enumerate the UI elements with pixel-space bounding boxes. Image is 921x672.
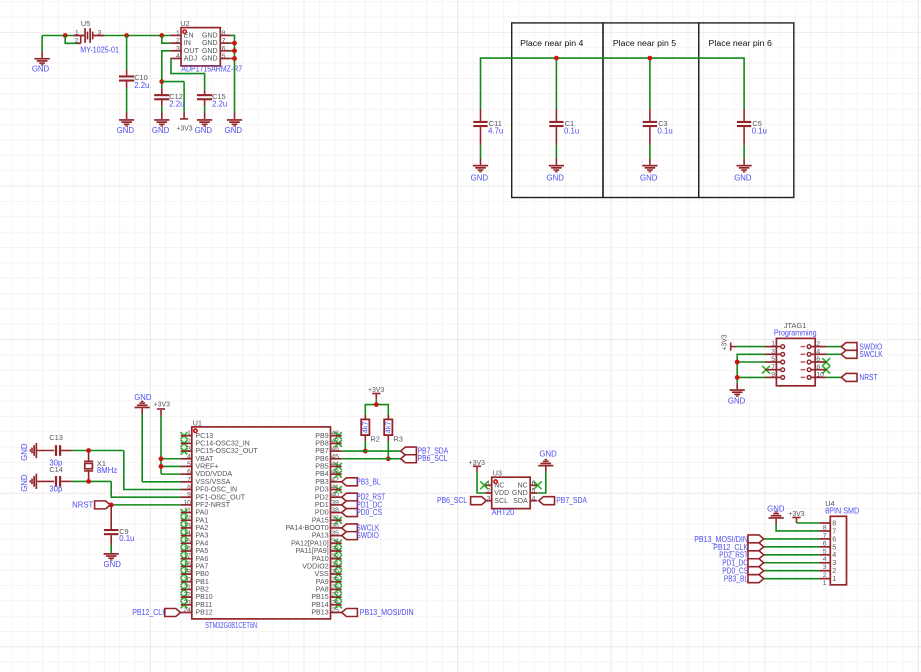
- svg-text:31: 31: [331, 561, 339, 568]
- net flag PD0_CS (U4): [722, 567, 763, 576]
- net flag PB3_BL: [342, 477, 381, 486]
- svg-text:NRST: NRST: [72, 500, 93, 509]
- capacitor C13: [49, 433, 72, 467]
- junction VBAT: [159, 456, 164, 461]
- net flag NRST: [72, 500, 110, 509]
- svg-text:1: 1: [823, 580, 827, 587]
- power +3V3 (regulator output): [176, 82, 192, 133]
- ground GND (C14, rotated): [20, 474, 54, 492]
- svg-text:PB13: PB13: [311, 609, 328, 617]
- svg-text:R3: R3: [393, 435, 402, 444]
- svg-text:2.2u: 2.2u: [169, 100, 184, 109]
- wire JTAG ground bus: [737, 354, 765, 389]
- wire U5 pin2 jog: [65, 36, 76, 44]
- net flag PB3_BL (U4): [724, 575, 764, 584]
- svg-text:1: 1: [75, 30, 79, 37]
- capacitor C10: [119, 36, 149, 120]
- wire C14 to PF1-OSC_OUT: [72, 481, 181, 497]
- ground GND under C11: [471, 165, 489, 183]
- svg-text:4k7: 4k7: [361, 422, 370, 434]
- svg-text:GND: GND: [32, 65, 50, 74]
- svg-text:41: 41: [331, 484, 339, 491]
- svg-text:24: 24: [183, 607, 191, 614]
- svg-text:0.1u: 0.1u: [119, 534, 134, 543]
- junction U2 IN tap: [159, 33, 164, 38]
- svg-text:40: 40: [331, 492, 339, 499]
- svg-text:GND: GND: [20, 443, 29, 461]
- svg-text:GND: GND: [202, 55, 218, 63]
- svg-text:2: 2: [832, 567, 836, 575]
- no-connect X JTAG pin8: [822, 366, 830, 374]
- svg-text:SWDIO: SWDIO: [356, 531, 379, 540]
- svg-text:6: 6: [222, 45, 226, 52]
- wire JTAG pin4 to SWCLK: [827, 353, 842, 355]
- svg-text:+3V3: +3V3: [721, 334, 728, 350]
- wire U2 GND pins to ground rail: [231, 35, 235, 119]
- svg-text:PB7_SDA: PB7_SDA: [556, 496, 587, 505]
- svg-text:22: 22: [183, 592, 191, 599]
- power +3V3 (JTAG, rotated): [721, 334, 736, 351]
- svg-text:Place near pin 4: Place near pin 4: [520, 39, 584, 48]
- svg-text:8: 8: [222, 30, 226, 37]
- svg-text:8: 8: [816, 364, 820, 371]
- frame Place near pin 5: [603, 23, 699, 198]
- svg-text:Programming: Programming: [774, 328, 817, 337]
- wire JTAG pin2 to SWDIO: [827, 346, 842, 348]
- svg-text:GND: GND: [104, 560, 122, 569]
- power +3V3 (MCU): [154, 402, 170, 474]
- svg-text:U3: U3: [493, 469, 502, 478]
- svg-text:12: 12: [183, 515, 191, 522]
- svg-text:PB6_SCL: PB6_SCL: [437, 496, 468, 505]
- wire C13 to PF0-OSC_IN: [72, 451, 181, 490]
- junction X1 bottom: [86, 479, 91, 484]
- svg-text:3: 3: [176, 45, 180, 52]
- net flag PB6_SCL (AHT20): [437, 496, 486, 505]
- svg-text:7: 7: [832, 527, 836, 535]
- svg-text:5: 5: [771, 356, 775, 363]
- sensor U3 AHT20: [485, 469, 537, 517]
- junction C1 tap: [554, 56, 559, 61]
- svg-text:44: 44: [331, 461, 339, 468]
- svg-text:MY-1025-01: MY-1025-01: [80, 46, 119, 55]
- microcontroller U1 STM32G0B1CET6N: [181, 418, 342, 630]
- wire JTAG pin10 to NRST: [827, 376, 842, 378]
- net flag SWDIO: [342, 531, 379, 540]
- svg-text:8: 8: [187, 484, 191, 491]
- no-connect X marks U1 left side: [181, 432, 188, 608]
- ground GND under C10: [117, 119, 135, 135]
- svg-text:4: 4: [532, 495, 536, 502]
- junction JTAG pin5: [735, 360, 740, 365]
- svg-text:4k7: 4k7: [384, 422, 393, 434]
- wire U4 pin4 net PD2_RST: [764, 554, 820, 556]
- svg-text:Place near pin 6: Place near pin 6: [709, 39, 772, 48]
- svg-text:4: 4: [176, 53, 180, 60]
- capacitor C9: [104, 505, 134, 553]
- svg-text:GND: GND: [640, 174, 658, 183]
- svg-text:47: 47: [331, 438, 339, 445]
- svg-text:18: 18: [183, 561, 191, 568]
- svg-text:8: 8: [832, 519, 836, 527]
- svg-text:14: 14: [183, 530, 191, 537]
- svg-text:C13: C13: [49, 433, 63, 442]
- svg-text:10: 10: [183, 499, 191, 506]
- wire PB7 to flag: [342, 450, 401, 452]
- svg-text:4: 4: [187, 453, 191, 460]
- junction R3/PB6: [386, 456, 391, 461]
- svg-text:29: 29: [331, 576, 339, 583]
- svg-text:30p: 30p: [49, 484, 63, 493]
- net flag PB12_CLK (U4): [713, 543, 763, 552]
- net flag PB6_SCL (MCU): [401, 454, 448, 463]
- svg-text:PB12_CLK: PB12_CLK: [132, 608, 167, 617]
- svg-text:6: 6: [816, 356, 820, 363]
- svg-text:0.1u: 0.1u: [564, 126, 579, 135]
- svg-text:9: 9: [771, 372, 775, 379]
- svg-text:6: 6: [532, 480, 536, 487]
- svg-text:U2: U2: [180, 19, 189, 28]
- svg-text:4: 4: [832, 551, 836, 559]
- svg-text:+3V3: +3V3: [176, 125, 192, 132]
- svg-text:5: 5: [187, 461, 191, 468]
- net flag PD2_RST (U4): [719, 551, 764, 560]
- svg-text:7: 7: [222, 38, 226, 45]
- capacitor C3: [643, 109, 673, 165]
- ground GND (MCU top): [134, 393, 152, 482]
- svg-text:28: 28: [331, 584, 339, 591]
- svg-text:35: 35: [331, 530, 339, 537]
- svg-text:39: 39: [331, 499, 339, 506]
- svg-text:19: 19: [183, 569, 191, 576]
- svg-text:PD0_CS: PD0_CS: [356, 508, 382, 517]
- svg-text:48: 48: [331, 430, 339, 437]
- net flag SWCLK: [342, 523, 380, 532]
- svg-text:3: 3: [98, 29, 102, 36]
- svg-text:30: 30: [331, 569, 339, 576]
- svg-text:38: 38: [331, 507, 339, 514]
- svg-text:42: 42: [331, 476, 339, 483]
- junction C3 tap: [648, 56, 653, 61]
- svg-text:13: 13: [183, 522, 191, 529]
- svg-text:GND: GND: [728, 396, 746, 405]
- capacitor C15: [197, 90, 227, 119]
- junction VREF+: [159, 464, 164, 469]
- wire +3V3 to R2/R3: [365, 405, 388, 420]
- svg-text:R2: R2: [370, 435, 379, 444]
- svg-text:5: 5: [532, 488, 536, 495]
- wire +3V3 to VDD/VDDA: [161, 473, 181, 475]
- svg-text:U5: U5: [81, 19, 90, 28]
- ground GND under C15: [195, 119, 213, 135]
- wire U2 OUT net: [162, 51, 171, 88]
- wire U4 pin2 net PD0_CS: [764, 570, 820, 572]
- ground GND (AHT20): [537, 450, 557, 494]
- svg-text:C14: C14: [49, 465, 63, 474]
- net flag PB7_SDA (AHT20): [539, 496, 588, 505]
- svg-text:10: 10: [816, 372, 824, 379]
- svg-text:8MHz: 8MHz: [97, 466, 117, 475]
- svg-text:PB3_BL: PB3_BL: [724, 575, 749, 584]
- svg-text:5: 5: [832, 543, 836, 551]
- junction C10 tap: [124, 33, 129, 38]
- svg-text:2: 2: [187, 438, 191, 445]
- svg-text:ADJ: ADJ: [184, 55, 198, 63]
- svg-text:6: 6: [832, 535, 836, 543]
- svg-text:GND: GND: [539, 450, 557, 459]
- svg-text:1: 1: [487, 480, 491, 487]
- wire U4 pin5 net PB12_CLK: [764, 546, 820, 548]
- net flag PB13_MOSI/DIN (MCU): [342, 608, 414, 617]
- svg-text:2: 2: [176, 38, 180, 45]
- svg-text:AHT20: AHT20: [492, 508, 515, 517]
- svg-text:GND: GND: [471, 174, 489, 183]
- svg-text:0.1u: 0.1u: [658, 126, 673, 135]
- wire +3V3 to VREF+: [161, 465, 181, 467]
- net flag PB7_SDA (MCU): [401, 447, 449, 456]
- power +3V3 (AHT20): [469, 460, 485, 493]
- power +3V3 (U4): [788, 511, 819, 523]
- junction U2 pin7: [232, 41, 237, 46]
- connector JTAG1 Programming header: [765, 321, 827, 386]
- svg-text:2.2u: 2.2u: [212, 100, 227, 109]
- svg-text:16: 16: [183, 546, 191, 553]
- capacitor C14: [49, 465, 72, 493]
- svg-text:GND: GND: [20, 474, 29, 492]
- svg-text:GND: GND: [134, 393, 152, 402]
- no-connect X U3 pin6: [534, 481, 542, 489]
- frame Place near pin 4: [512, 23, 603, 198]
- no-connect X U3 pin1: [480, 481, 488, 489]
- wire to U2 IN pin: [162, 36, 171, 44]
- svg-text:26: 26: [331, 599, 339, 606]
- ground GND (U4): [767, 504, 819, 531]
- svg-text:ADP1715ARMZ-R7: ADP1715ARMZ-R7: [181, 65, 242, 74]
- svg-text:5: 5: [222, 53, 226, 60]
- buzzer U5 MY-1025-01: [73, 19, 119, 54]
- wire GND to VSS/VSSA: [142, 481, 180, 483]
- connector U4 8PIN SMD: [819, 499, 859, 587]
- ground GND under C1: [547, 165, 565, 183]
- capacitor C1: [549, 109, 579, 165]
- wire PB6 to flag: [342, 458, 401, 460]
- svg-text:GND: GND: [152, 126, 170, 135]
- power +3V3 (pull-ups): [368, 387, 384, 405]
- svg-text:45: 45: [331, 453, 339, 460]
- svg-text:1: 1: [832, 575, 836, 583]
- svg-text:7: 7: [187, 476, 191, 483]
- ground GND under C3: [640, 165, 658, 183]
- svg-text:GND: GND: [117, 126, 135, 135]
- svg-text:8PIN SMD: 8PIN SMD: [825, 506, 859, 515]
- net flag SWDIO (JTAG): [841, 342, 882, 351]
- svg-text:SCL: SCL: [494, 497, 508, 505]
- ground GND under C12: [152, 119, 170, 135]
- svg-text:1: 1: [176, 30, 180, 37]
- capacitor C5: [737, 109, 767, 165]
- svg-text:37: 37: [331, 515, 339, 522]
- svg-text:1: 1: [187, 430, 191, 437]
- svg-text:+3V3: +3V3: [154, 402, 170, 409]
- svg-text:7: 7: [771, 364, 775, 371]
- junction OUT/C12/+3V3: [159, 79, 164, 84]
- svg-text:NRST: NRST: [859, 373, 877, 382]
- ground GND (C13, rotated): [20, 443, 54, 461]
- svg-text:PB3_BL: PB3_BL: [356, 477, 381, 486]
- net flag PB12_CLK: [132, 608, 180, 617]
- svg-text:17: 17: [183, 553, 191, 560]
- ground GND under C9: [104, 553, 122, 569]
- svg-text:43: 43: [331, 469, 339, 476]
- svg-text:33: 33: [331, 546, 339, 553]
- svg-text:3: 3: [187, 446, 191, 453]
- frame Place near pin 6: [699, 23, 794, 198]
- svg-text:32: 32: [331, 553, 339, 560]
- svg-text:STM32G0B1CET6N: STM32G0B1CET6N: [205, 621, 257, 630]
- junction JTAG pin9: [735, 375, 740, 380]
- ground symbol GND (input): [32, 36, 50, 74]
- svg-text:SWCLK: SWCLK: [859, 350, 883, 359]
- svg-text:25: 25: [331, 607, 339, 614]
- ground GND (JTAG): [728, 389, 746, 405]
- svg-text:6: 6: [187, 469, 191, 476]
- svg-text:2: 2: [75, 38, 79, 45]
- no-connect X marks U1 right side: [335, 432, 342, 608]
- svg-text:2: 2: [487, 488, 491, 495]
- wire +3V3 to VBAT: [161, 458, 181, 460]
- svg-text:27: 27: [331, 592, 339, 599]
- svg-text:4.7u: 4.7u: [488, 126, 503, 135]
- svg-text:GND: GND: [225, 126, 243, 135]
- no-connect X JTAG pin7: [762, 366, 770, 374]
- net flag PB13_MOSI/DIN (U4): [694, 535, 764, 544]
- junction U2 pin5: [232, 56, 237, 61]
- no-connect X JTAG pin6: [822, 358, 830, 366]
- ground GND under U2: [225, 119, 243, 135]
- svg-text:GND: GND: [547, 174, 565, 183]
- junction X1 top: [86, 448, 91, 453]
- junction at U5 pins 1/2: [63, 33, 68, 38]
- junction U2 pin6: [232, 48, 237, 53]
- junction pull-up rail: [374, 402, 379, 407]
- wire U4 pin3 net PD1_DC: [764, 562, 820, 564]
- wire U2 ADJ net: [171, 59, 205, 91]
- svg-text:SDA: SDA: [513, 497, 528, 505]
- svg-text:0.1u: 0.1u: [752, 126, 767, 135]
- svg-text:U1: U1: [193, 418, 202, 427]
- resistor R3 4k7: [384, 415, 403, 459]
- wire U4 pin6 net PB13_MOSI/DIN: [764, 538, 820, 540]
- svg-text:GND: GND: [734, 174, 752, 183]
- op-amp U2 ADP1715ARMZ-R7 regulator: [170, 19, 242, 73]
- svg-text:PB12: PB12: [195, 609, 212, 617]
- svg-text:Place near pin 5: Place near pin 5: [613, 39, 677, 48]
- net flag PD2_RST: [342, 493, 386, 502]
- svg-text:PB13_MOSI/DIN: PB13_MOSI/DIN: [360, 608, 414, 617]
- svg-text:15: 15: [183, 538, 191, 545]
- svg-text:23: 23: [183, 599, 191, 606]
- wire U4 pin1 net PB3_BL: [764, 578, 820, 580]
- wire NRST to PF2-NRST: [110, 504, 180, 506]
- svg-text:GND: GND: [195, 126, 213, 135]
- svg-text:2.2u: 2.2u: [134, 81, 149, 90]
- net flag PD1_DC (U4): [722, 559, 763, 568]
- wire GND net to U5: [42, 35, 73, 37]
- net flag PD0_CS: [342, 508, 382, 517]
- ground GND under C5: [734, 165, 752, 183]
- svg-text:2: 2: [816, 341, 820, 348]
- svg-text:34: 34: [331, 538, 339, 545]
- svg-text:1: 1: [771, 341, 775, 348]
- svg-text:20: 20: [183, 576, 191, 583]
- crystal X1 8MHz: [84, 451, 117, 482]
- svg-text:36: 36: [331, 522, 339, 529]
- svg-text:PB6_SCL: PB6_SCL: [418, 454, 449, 463]
- svg-text:3: 3: [832, 559, 836, 567]
- resistor R2 4k7: [361, 415, 380, 451]
- net flag PD1_DC: [342, 500, 383, 509]
- svg-text:4: 4: [816, 348, 820, 355]
- wire +3V3 decoupling rail: [481, 58, 745, 109]
- net flag NRST (JTAG): [841, 373, 877, 382]
- capacitor C11: [473, 109, 503, 165]
- net flag SWCLK (JTAG): [841, 350, 883, 359]
- junction NRST/C9: [109, 502, 114, 507]
- wire OUT to +3V3 branch: [162, 81, 184, 83]
- svg-text:9: 9: [187, 492, 191, 499]
- svg-text:46: 46: [331, 446, 339, 453]
- svg-text:3: 3: [487, 495, 491, 502]
- svg-text:21: 21: [183, 584, 191, 591]
- junction R2/PB7: [363, 449, 368, 454]
- svg-text:3: 3: [771, 348, 775, 355]
- svg-text:11: 11: [184, 507, 191, 514]
- capacitor C12: [154, 88, 184, 119]
- wire +3V3 to JTAG pin1: [736, 346, 765, 348]
- wire U5 pin3 to U2 EN: [104, 35, 170, 37]
